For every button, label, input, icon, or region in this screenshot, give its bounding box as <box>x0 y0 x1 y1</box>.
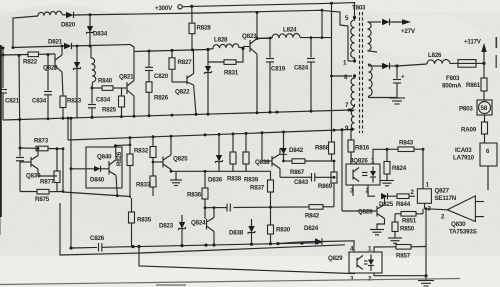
resistor R825 <box>121 88 123 96</box>
wire line3 to Q829 pin3 <box>139 247 355 274</box>
wire box top to R832 <box>114 144 117 147</box>
node dot <box>482 62 485 65</box>
resistor RA09 <box>484 115 486 122</box>
wire bus M1 <box>3 110 351 120</box>
wire arrow +117V <box>483 49 485 63</box>
capacitor C820 <box>148 51 150 67</box>
wire long vertical x71 <box>70 118 72 248</box>
transistor Q840 <box>108 161 110 175</box>
wire x342 vertical <box>341 130 343 211</box>
optocoupler Q826 box <box>346 164 380 185</box>
wire R822 row <box>3 54 28 57</box>
resistor R875 <box>20 191 37 193</box>
transistor Q828 <box>342 210 377 212</box>
wire vertical x322 <box>321 10 323 37</box>
inductor vertical winding <box>90 46 92 58</box>
coupling arrows <box>362 172 368 174</box>
wire Q820 emitter to R823 <box>62 72 63 96</box>
resistor R816 <box>350 130 352 141</box>
resistor R831 <box>208 50 224 63</box>
wire R843 node down to Q827 pin1 <box>422 149 424 189</box>
wire Q826 pin3 <box>352 185 354 196</box>
diode D826 <box>382 19 390 25</box>
resistor R843 <box>386 148 389 151</box>
resistor R861 <box>483 63 485 78</box>
zener D822 <box>76 46 78 62</box>
transformer secondary winding s2 <box>369 64 373 96</box>
resistor R830 <box>268 225 274 234</box>
diode D821 <box>64 43 72 49</box>
transformer T803 winding 3 <box>351 110 354 129</box>
transistor Q824 <box>206 219 208 230</box>
transistor Q839 <box>20 161 31 163</box>
transistor Q825 <box>153 161 163 163</box>
wire Q826 pin1 to R843 node <box>373 149 387 164</box>
wire R816 bottom to box <box>350 152 352 164</box>
bottom scan line <box>0 279 460 285</box>
resistor R837 <box>270 171 272 180</box>
resistor R822 <box>28 52 39 57</box>
resistor R842 <box>309 205 323 210</box>
capacitor C838 <box>19 148 21 157</box>
node dot <box>89 45 92 48</box>
wire second top line to T803 pin1 <box>74 10 349 61</box>
zener D830 <box>207 62 209 66</box>
coupling arrows <box>364 260 368 262</box>
resistor R828 <box>191 6 193 23</box>
diode D827 <box>382 63 390 69</box>
IC ICA03 LA7910 <box>480 143 497 166</box>
wire cap row to R842 <box>234 206 310 209</box>
resistor R824 <box>386 149 388 161</box>
wire M1-M2 vertical <box>67 118 69 140</box>
transistor Q838 <box>271 156 273 167</box>
ground <box>389 97 405 99</box>
node dot <box>2 54 5 57</box>
resistor R833 <box>150 176 156 187</box>
resistor R840 <box>92 87 102 89</box>
resistor R838 <box>232 134 234 152</box>
zener D823 <box>181 215 183 222</box>
wire Q829 pin2 <box>374 273 426 276</box>
LED inside Q829 <box>368 260 374 266</box>
node dots on M2 <box>129 136 132 139</box>
wire D824 to Q829 pin4 <box>322 241 354 252</box>
capacitor C843 <box>296 176 311 178</box>
left edge bar <box>0 45 2 217</box>
transformer secondary winding s1 <box>368 22 372 51</box>
resistor R823 <box>60 96 66 108</box>
diode D825 <box>381 193 388 199</box>
capacitor C834 second <box>91 88 93 104</box>
inductor L820 <box>38 11 62 16</box>
wire left edge vertical <box>2 48 4 88</box>
regulator Q827 <box>417 189 431 204</box>
wire to Q821 collector node <box>72 45 135 52</box>
resistor R873 <box>20 147 36 149</box>
wire y171 row <box>171 170 271 172</box>
resistor R868 <box>329 142 335 154</box>
zener D836 <box>218 134 220 155</box>
diode D840 <box>94 166 101 172</box>
wire R875 row to R832 junction <box>63 192 131 197</box>
ground under R850 <box>388 237 402 239</box>
resistor R851 <box>422 209 424 214</box>
wire vertical x332 from +300V dot to R868 <box>331 3 333 142</box>
resistor R850 <box>394 214 396 222</box>
diode D842 <box>283 132 285 148</box>
transistor Q820 <box>54 58 56 70</box>
wire Q827 pin3 to comparator <box>424 203 426 208</box>
ground under R824 <box>380 180 394 182</box>
wire arrow +27V <box>390 21 407 23</box>
wire <box>19 55 20 148</box>
resistor R844 <box>397 194 409 199</box>
transistor Q823 <box>243 46 250 48</box>
node dot <box>89 13 92 16</box>
resistor R835 <box>131 198 133 212</box>
transistor Q822 <box>172 81 187 83</box>
ground under Q828 <box>370 229 384 231</box>
wire y50 row <box>134 50 208 52</box>
inductor L826 <box>427 60 450 64</box>
wire <box>62 14 66 16</box>
pot P803 <box>477 100 492 115</box>
node dots cap row <box>269 206 272 209</box>
phototransistor inside Q829 <box>356 258 358 268</box>
resistor R857 <box>396 245 411 250</box>
capacitor C834 left <box>47 55 49 91</box>
resistor R867 <box>284 160 293 162</box>
wire Q838 base from M2 <box>261 133 263 161</box>
wire D821 row <box>13 46 64 48</box>
phototransistor inside Q826 <box>352 170 354 180</box>
right edge marks <box>496 37 498 48</box>
resistor R839 <box>245 133 247 152</box>
ground under Q825 <box>175 171 177 179</box>
wire bus M2 <box>68 130 351 141</box>
resistor R869 <box>333 161 335 172</box>
wire <box>13 16 38 48</box>
diode D824 <box>278 242 296 243</box>
LED inside Q826 <box>370 171 376 177</box>
resistor R877 <box>56 149 58 171</box>
node dot <box>12 46 15 49</box>
inductor L828 <box>206 48 209 51</box>
resistor R834 <box>152 137 154 147</box>
capacitor C825 <box>218 207 227 209</box>
wire D840 input from x71 vertical <box>71 168 94 170</box>
bus A bottom <box>71 246 97 249</box>
fuse F803 <box>450 62 458 64</box>
zener D834 <box>89 15 91 26</box>
capacitor C824 <box>310 38 312 58</box>
wire right vertical x426 <box>425 209 427 276</box>
wire Q829 pin1 to R857 <box>374 247 396 252</box>
capacitor C826b <box>396 66 398 79</box>
diode D820 <box>66 12 74 18</box>
transformer core dashed <box>359 12 361 133</box>
wire +300V bus to T803 pin5 <box>192 3 355 17</box>
SECTION: optocoupler Q829 <box>349 252 382 273</box>
resistor R836 <box>204 171 206 188</box>
op-amp Q830 <box>447 196 475 222</box>
resistor R826 <box>146 82 152 93</box>
bus B <box>60 203 345 255</box>
node dot <box>2 47 5 50</box>
wire Q826 pin2 to D825 <box>368 185 375 196</box>
node A dots on M1 <box>47 117 50 120</box>
node dot <box>91 87 94 90</box>
capacitor C821 <box>0 89 7 91</box>
transistor Q821 <box>126 82 128 94</box>
inductor L824 <box>257 37 268 40</box>
ground bottom right <box>425 276 427 280</box>
wire R873 node vertical <box>62 149 64 192</box>
wire branch to pin8 <box>332 75 353 77</box>
module box Q840 <box>86 147 122 188</box>
capacitor C826 <box>98 243 100 252</box>
resistor R832 <box>129 138 131 154</box>
zener D838 <box>251 219 253 226</box>
capacitor C819 <box>269 38 271 58</box>
node dots bus A <box>69 246 72 249</box>
resistor R827 <box>171 50 173 57</box>
